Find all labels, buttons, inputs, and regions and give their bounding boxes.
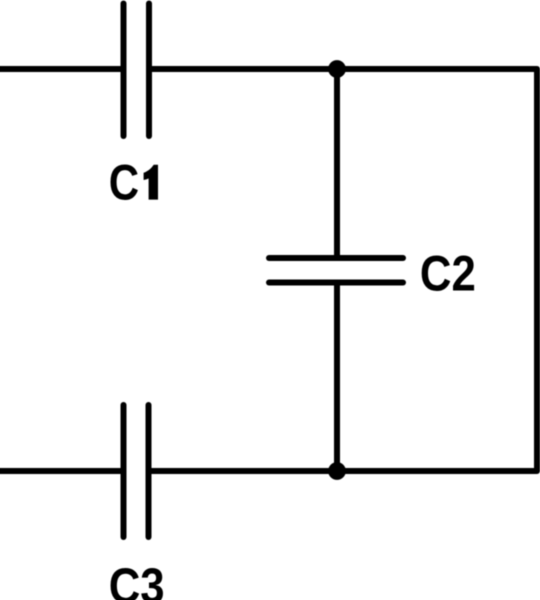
junction node bottom <box>328 462 346 480</box>
capacitor C1 <box>124 4 150 137</box>
svg-text:C2: C2 <box>420 245 476 301</box>
wire middle branch upper segment from top junction down to C2 <box>334 69 340 258</box>
label C2 <box>420 245 476 301</box>
capacitor C3 <box>124 405 149 537</box>
wire from C1 right plate to top-right corner, down the right side, to bottom-right then left to C3 <box>149 69 538 471</box>
capacitor C2 <box>269 258 403 283</box>
label C3 <box>109 557 165 600</box>
svg-text:C: C <box>109 154 139 210</box>
wire bottom-left from left edge to C3 <box>0 468 124 474</box>
wire middle branch lower segment from C2 down to bottom junction <box>334 283 340 472</box>
svg-text:C3: C3 <box>109 557 165 600</box>
wire top-left from left edge to C1 <box>0 66 124 72</box>
label C1 <box>109 154 139 210</box>
junction node top <box>328 60 346 78</box>
